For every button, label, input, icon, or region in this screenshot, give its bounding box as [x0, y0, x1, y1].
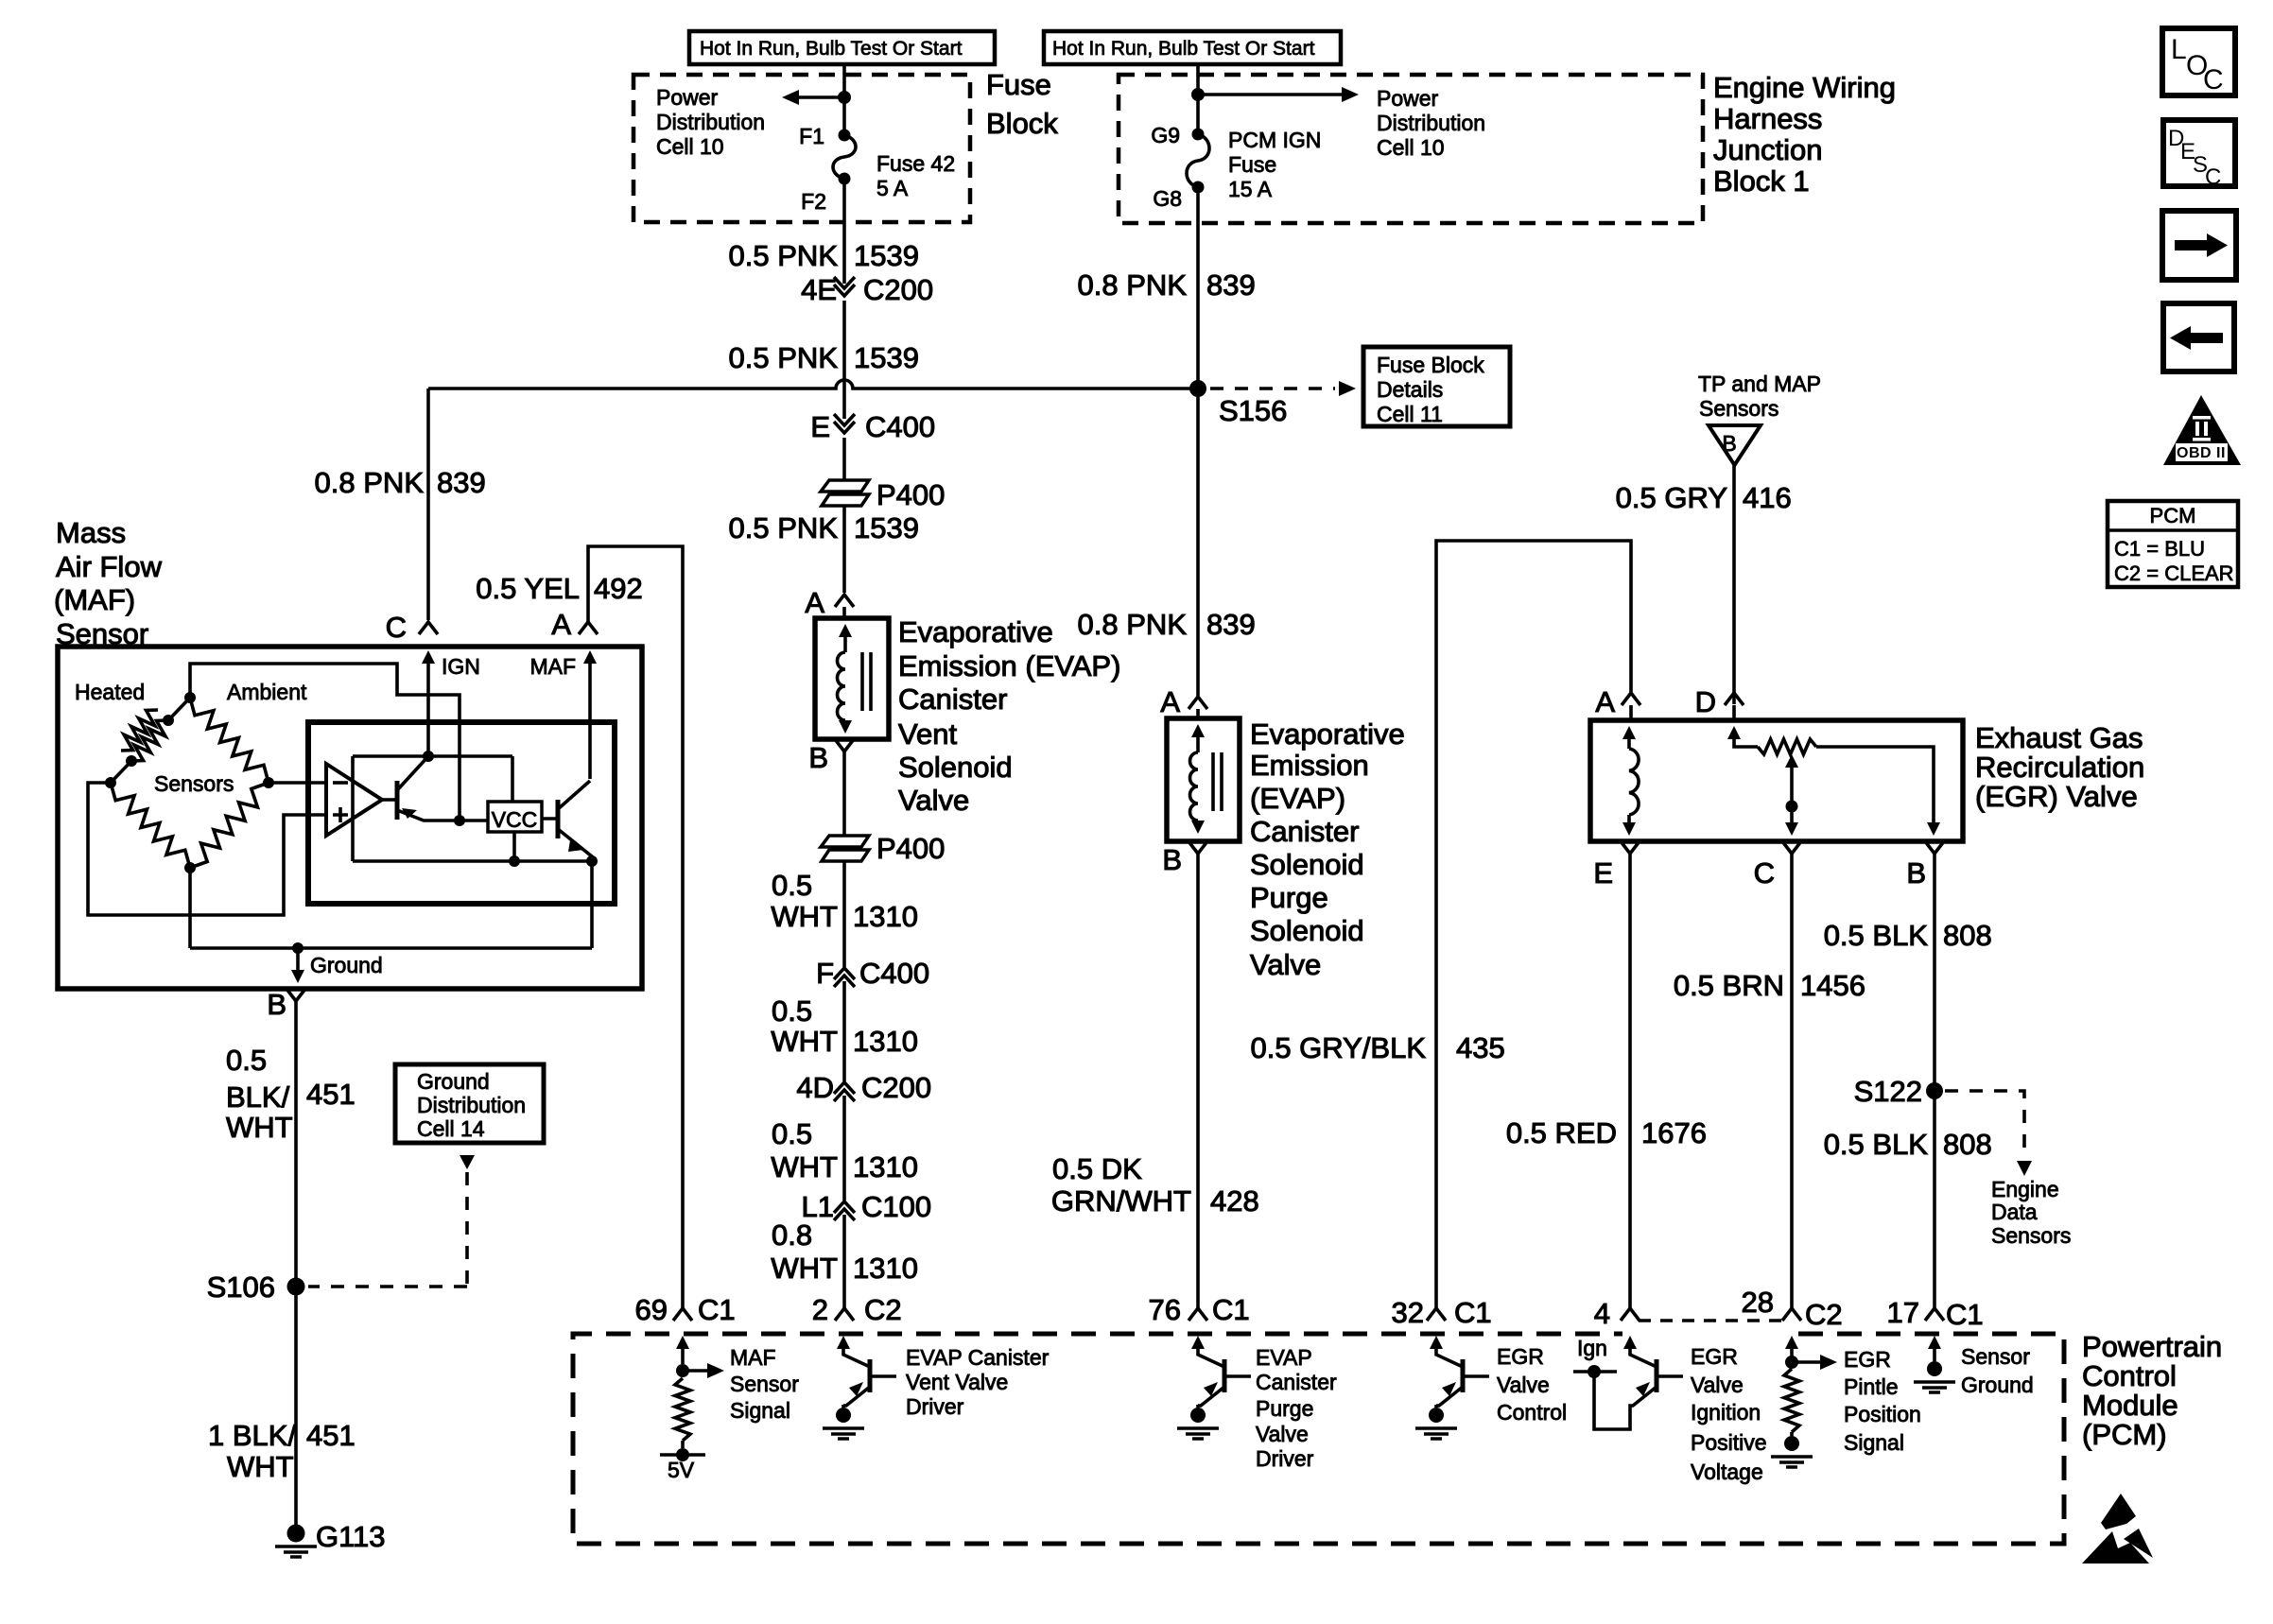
svg-text:0.5 BLK: 0.5 BLK — [1824, 1128, 1929, 1161]
wire 0.5 PNK 1539 horizontal feed with hop over fuse wire — [428, 380, 1198, 389]
wire B to P400 lower — [842, 752, 846, 836]
svg-text:P400: P400 — [876, 478, 945, 511]
svg-text:Vent Valve: Vent Valve — [906, 1370, 1008, 1394]
svg-text:Solenoid: Solenoid — [898, 751, 1013, 784]
svg-text:S156: S156 — [1219, 394, 1287, 427]
EVAP canister purge valve driver transistor (pin 76) — [1177, 1336, 1251, 1439]
connector E C400 — [810, 410, 935, 443]
node junction + arrow to Power Distribution Cell 10 (left) — [782, 90, 851, 105]
svg-text:C100: C100 — [861, 1190, 931, 1223]
svg-text:C400: C400 — [865, 410, 935, 443]
solenoid coil (purge valve) — [1190, 724, 1223, 834]
svg-text:Pintle: Pintle — [1844, 1374, 1899, 1399]
svg-text:Voltage: Voltage — [1691, 1460, 1763, 1484]
wire left node to op-amp + input — [88, 783, 326, 915]
icon LOC — [2162, 28, 2235, 95]
grommet P400 (lower) — [821, 832, 945, 865]
svg-text:B: B — [1722, 431, 1736, 456]
svg-text:0.5: 0.5 — [772, 1117, 812, 1150]
svg-text:451: 451 — [306, 1078, 356, 1111]
svg-text:1 BLK/: 1 BLK/ — [208, 1419, 296, 1452]
svg-text:1310: 1310 — [853, 1025, 918, 1058]
svg-text:0.5 PNK: 0.5 PNK — [729, 341, 839, 374]
wire to P400 — [842, 438, 846, 480]
label EVAP Canister Vent Valve Driver — [906, 1345, 1050, 1419]
wire 0.5 PNK 1539 (P400 to EVAP vent A) — [729, 506, 919, 593]
svg-text:Hot In Run, Bulb Test Or Start: Hot In Run, Bulb Test Or Start — [1052, 38, 1315, 60]
svg-text:EGR: EGR — [1497, 1344, 1544, 1369]
junction block dashed box (PCM IGN fuse) — [1119, 75, 1703, 223]
MAF sensor signal input (pin 69) — [635, 1293, 736, 1326]
svg-text:Air Flow: Air Flow — [56, 550, 163, 583]
wire 0.5 GRY 416 to EGR D — [1616, 465, 1792, 704]
svg-text:EVAP Canister: EVAP Canister — [906, 1345, 1050, 1370]
reference box Fuse Block Details Cell 11 — [1363, 347, 1510, 426]
svg-text:Sensors: Sensors — [1991, 1223, 2071, 1248]
label Engine Wiring Harness Junction Block 1 — [1713, 71, 1896, 198]
reference box Ground Distribution Cell 14 — [395, 1064, 544, 1143]
svg-text:Mass: Mass — [56, 516, 126, 549]
node S122 — [1854, 1075, 1943, 1108]
svg-text:PCM IGN: PCM IGN — [1228, 128, 1321, 152]
label Engine Data Sensors — [1991, 1177, 2071, 1248]
transistor Q2 — [542, 781, 592, 861]
label Power Distribution Cell 10 (left) — [656, 85, 765, 159]
svg-text:Fuse Block: Fuse Block — [1377, 353, 1484, 377]
Ground arrow — [291, 948, 383, 983]
svg-text:1539: 1539 — [854, 239, 919, 272]
svg-text:0.5 GRY: 0.5 GRY — [1616, 481, 1727, 514]
svg-text:0.5 BRN: 0.5 BRN — [1674, 969, 1784, 1002]
svg-text:E: E — [810, 410, 830, 443]
svg-text:Control: Control — [2082, 1359, 2177, 1392]
svg-text:0.5 PNK: 0.5 PNK — [729, 239, 839, 272]
svg-text:(EVAP): (EVAP) — [1250, 782, 1345, 815]
grommet P400 (upper) — [821, 478, 945, 511]
pin B EVAP vent — [808, 739, 854, 774]
svg-text:Module: Module — [2082, 1389, 2178, 1422]
pin 76 C1 at PCM — [1149, 1293, 1250, 1326]
connector 4D C200 — [796, 1071, 931, 1104]
wire fuse1 vertical from Hot box — [842, 64, 846, 135]
svg-text:Distribution: Distribution — [417, 1093, 526, 1117]
pin E EGR — [1593, 841, 1640, 890]
bridge labels — [75, 680, 307, 796]
svg-text:A: A — [551, 608, 571, 641]
svg-text:B: B — [1162, 843, 1182, 876]
wire feedback to ground rail — [590, 861, 594, 948]
svg-text:Canister: Canister — [898, 682, 1007, 716]
label Sensor Ground — [1961, 1344, 2034, 1397]
EGR pintle potentiometer — [1727, 726, 1940, 836]
svg-text:D: D — [1695, 685, 1716, 718]
svg-text:Harness: Harness — [1713, 102, 1822, 135]
label Evaporative Emission (EVAP) Canister Solenoid Purge Solenoid Valve — [1250, 717, 1405, 981]
svg-text:Ambient: Ambient — [227, 680, 307, 704]
svg-text:Evaporative: Evaporative — [898, 615, 1053, 648]
svg-text:IGN: IGN — [442, 654, 480, 679]
wire 0.5 BRN 1456 EGR C to PCM pin 28 — [1674, 854, 1865, 1308]
fuse F1 pin — [799, 124, 850, 148]
rail to VCC top — [511, 756, 514, 802]
legend PCM connectors — [2108, 501, 2238, 587]
label box "Hot In Run, Bulb Test Or Start" (right) — [1044, 31, 1341, 64]
svg-text:1310: 1310 — [853, 1150, 918, 1183]
svg-text:C: C — [1754, 856, 1775, 890]
svg-text:Ground: Ground — [310, 953, 383, 977]
svg-text:C1: C1 — [1946, 1298, 1984, 1331]
wire 0.5 DK GRN/WHT 428 to PCM pin 76 — [1051, 854, 1259, 1308]
wire 0.5 GRY/BLK 435 EGR A to PCM pin 32 — [1250, 541, 1631, 1308]
EGR pintle position signal input (pin 28) — [1771, 1336, 1837, 1467]
svg-text:Emission (EVAP): Emission (EVAP) — [898, 649, 1120, 682]
svg-text:839: 839 — [437, 466, 486, 499]
MAF sensor box — [58, 647, 642, 989]
EGR solenoid coil — [1622, 726, 1639, 836]
svg-text:17: 17 — [1887, 1296, 1919, 1329]
MAF internal arrow — [529, 650, 597, 779]
svg-text:WHT: WHT — [771, 900, 838, 933]
svg-text:0.8 PNK: 0.8 PNK — [1078, 608, 1188, 641]
wire 0.5 BLK 808 S122 to PCM pin 17 — [1824, 1091, 1992, 1308]
svg-text:Ground: Ground — [1961, 1373, 2034, 1397]
svg-text:Distribution: Distribution — [656, 110, 765, 134]
pin B EVAP purge — [1162, 841, 1207, 876]
svg-text:4D: 4D — [796, 1071, 834, 1104]
label EVAP Canister Purge Valve Driver — [1256, 1345, 1337, 1471]
pin A MAF — [551, 608, 598, 641]
svg-text:TP and MAP: TP and MAP — [1698, 371, 1821, 396]
wire 0.5 PNK 1539 (fuse to C200) — [729, 239, 919, 272]
svg-text:451: 451 — [306, 1419, 356, 1452]
feedback left leg — [351, 756, 355, 861]
svg-text:Control: Control — [1497, 1400, 1567, 1425]
svg-text:Vent: Vent — [898, 717, 957, 751]
VCC bottom leg — [512, 832, 516, 861]
svg-text:Engine: Engine — [1991, 1177, 2059, 1201]
svg-text:C: C — [386, 611, 407, 644]
svg-text:Valve: Valve — [898, 784, 969, 817]
icon arrow left — [2163, 303, 2234, 371]
svg-text:4: 4 — [1594, 1297, 1610, 1330]
svg-text:B: B — [267, 988, 286, 1021]
svg-text:Details: Details — [1377, 377, 1443, 402]
svg-text:0.5: 0.5 — [772, 869, 812, 902]
svg-text:Engine Wiring: Engine Wiring — [1713, 71, 1896, 104]
connector L1 C100 — [802, 1190, 932, 1223]
svg-text:(PCM): (PCM) — [2082, 1418, 2167, 1451]
pin B EGR — [1906, 841, 1944, 890]
svg-text:Hot In Run, Bulb Test Or Start: Hot In Run, Bulb Test Or Start — [700, 38, 963, 60]
svg-text:Ground: Ground — [417, 1069, 490, 1094]
svg-text:Cell 14: Cell 14 — [417, 1116, 485, 1141]
label EGR Pintle Position Signal — [1844, 1347, 1921, 1455]
svg-text:69: 69 — [635, 1293, 668, 1326]
svg-text:EVAP: EVAP — [1256, 1345, 1312, 1370]
svg-text:C2: C2 — [864, 1293, 902, 1326]
svg-text:839: 839 — [1206, 268, 1256, 302]
svg-text:808: 808 — [1943, 919, 1992, 952]
svg-text:0.5 GRY/BLK: 0.5 GRY/BLK — [1250, 1031, 1426, 1064]
PCM IGN fuse element — [1187, 134, 1209, 187]
node S156 — [1189, 380, 1287, 427]
svg-text:Driver: Driver — [906, 1394, 964, 1419]
svg-text:Ignition: Ignition — [1691, 1400, 1761, 1425]
svg-text:E: E — [1593, 856, 1613, 890]
wire 0.5 YEL 492 MAF A to PCM pin 69 — [476, 546, 683, 1308]
label Fuse 42 5 A — [876, 151, 955, 200]
svg-text:Heated: Heated — [75, 680, 145, 704]
label box "Hot In Run, Bulb Test Or Start" (left) — [689, 31, 995, 64]
svg-text:435: 435 — [1456, 1031, 1505, 1064]
svg-text:Sensors: Sensors — [1699, 396, 1778, 421]
svg-text:G113: G113 — [316, 1520, 386, 1553]
wire 0.5 PNK 1539 (C200 to C400) — [729, 301, 919, 419]
svg-text:P400: P400 — [876, 832, 945, 865]
label Evaporative Emission (EVAP) Canister Vent Solenoid Valve — [898, 615, 1120, 817]
svg-text:C2 = CLEAR: C2 = CLEAR — [2114, 561, 2234, 585]
svg-text:Purge: Purge — [1256, 1396, 1313, 1421]
svg-text:MAF: MAF — [730, 1345, 776, 1370]
fuse 42 element — [833, 135, 856, 179]
svg-text:Position: Position — [1844, 1402, 1921, 1426]
heated resistor (bridge top-left, doubled) — [111, 698, 190, 783]
svg-text:OBD II: OBD II — [2177, 445, 2226, 461]
svg-text:Sensors: Sensors — [154, 771, 234, 796]
pin D EGR — [1695, 685, 1744, 720]
node junction + arrow to Power Distribution Cell 10 (right) — [1191, 87, 1359, 102]
svg-text:Cell 11: Cell 11 — [1377, 402, 1443, 426]
svg-text:Ign: Ign — [1577, 1336, 1607, 1360]
svg-text:Sensor: Sensor — [730, 1372, 799, 1396]
svg-text:Recirculation: Recirculation — [1975, 751, 2144, 784]
svg-text:Purge: Purge — [1250, 881, 1328, 914]
svg-text:428: 428 — [1210, 1184, 1259, 1218]
svg-text:G9: G9 — [1151, 123, 1180, 147]
svg-text:C400: C400 — [859, 957, 929, 990]
svg-text:Distribution: Distribution — [1377, 111, 1485, 135]
fuse F2 pin — [801, 173, 850, 215]
bridge bottom to ground rail — [188, 868, 192, 948]
fuse block dashed box (Fuse 42) — [633, 75, 970, 222]
svg-text:0.5 PNK: 0.5 PNK — [729, 511, 839, 544]
svg-text:EGR: EGR — [1844, 1347, 1891, 1372]
svg-text:C: C — [2205, 164, 2221, 190]
svg-text:Valve: Valve — [1497, 1373, 1550, 1397]
svg-text:WHT: WHT — [771, 1025, 838, 1058]
svg-text:28: 28 — [1742, 1286, 1774, 1319]
label MAF Sensor Signal — [730, 1345, 799, 1423]
wire below F2 — [842, 179, 846, 282]
wire 0.8 PNK 839 S156 to EVAP purge A — [1078, 389, 1256, 696]
wire 0.5 WHT 1310 (P400 to C400) — [771, 861, 918, 967]
svg-text:Canister: Canister — [1250, 815, 1359, 848]
svg-text:(EGR) Valve: (EGR) Valve — [1975, 780, 2138, 813]
svg-text:Fuse: Fuse — [1228, 152, 1276, 177]
bridge node dots — [105, 692, 274, 873]
svg-text:F2: F2 — [801, 189, 826, 214]
svg-text:0.5 BLK: 0.5 BLK — [1824, 919, 1929, 952]
svg-text:0.5: 0.5 — [772, 994, 812, 1028]
svg-text:A: A — [1595, 685, 1615, 718]
svg-text:1539: 1539 — [854, 511, 919, 544]
svg-text:2: 2 — [812, 1293, 828, 1326]
svg-text:Canister: Canister — [1256, 1370, 1337, 1394]
wire 0.8 WHT 1310 (C100 to PCM pin 2) — [771, 1215, 918, 1308]
svg-text:32: 32 — [1392, 1296, 1424, 1329]
svg-text:S106: S106 — [207, 1270, 275, 1304]
connector 4E C200 — [801, 273, 933, 306]
svg-text:G8: G8 — [1153, 186, 1182, 211]
svg-text:Block 1: Block 1 — [1713, 164, 1810, 198]
svg-text:WHT: WHT — [771, 1252, 838, 1285]
svg-text:Block: Block — [986, 107, 1058, 140]
pin 4 at PCM — [1594, 1297, 1640, 1330]
svg-text:Junction: Junction — [1713, 133, 1822, 166]
wire 0.5 BLK/WHT 451 MAF B to S106 — [226, 1001, 356, 1287]
potentiometer wiper — [1785, 754, 1798, 836]
wire right node to op-amp - input — [269, 781, 326, 785]
svg-text:C1 = BLU: C1 = BLU — [2114, 537, 2205, 561]
wire 1 BLK/WHT 451 S106 to G113 — [208, 1287, 356, 1531]
sensor ground (pin 17) — [1914, 1336, 1955, 1392]
pin 17 C1 at PCM — [1887, 1296, 1984, 1331]
feedback rail — [353, 855, 598, 867]
svg-text:Sensor: Sensor — [1961, 1344, 2030, 1369]
pin B MAF — [267, 988, 305, 1021]
svg-text:0.5 DK: 0.5 DK — [1052, 1152, 1142, 1185]
svg-text:808: 808 — [1943, 1128, 1992, 1161]
svg-text:PCM: PCM — [2150, 504, 2196, 527]
svg-text:15 A: 15 A — [1228, 177, 1273, 201]
svg-text:1676: 1676 — [1641, 1116, 1707, 1149]
pin A EVAP purge — [1160, 685, 1207, 718]
svg-text:Solenoid: Solenoid — [1250, 848, 1364, 881]
wire 0.5 WHT 1310 (C400 to C200) — [771, 981, 918, 1081]
EGR valve control driver transistor (pin 32) — [1415, 1336, 1489, 1439]
fuse G8 pin — [1153, 181, 1204, 212]
svg-text:1310: 1310 — [853, 900, 918, 933]
label EGR Valve Ignition Positive Voltage — [1691, 1344, 1767, 1484]
svg-text:4E: 4E — [801, 273, 837, 306]
label Powertrain Control Module (PCM) — [2082, 1330, 2222, 1451]
svg-text:Signal: Signal — [1844, 1430, 1904, 1455]
svg-text:0.5 YEL: 0.5 YEL — [476, 572, 580, 605]
svg-text:C1: C1 — [698, 1293, 736, 1326]
svg-text:A: A — [1160, 685, 1180, 718]
svg-text:Fuse: Fuse — [986, 68, 1051, 101]
label EGR Valve Control — [1497, 1344, 1567, 1425]
MAF internal amplifier box — [308, 722, 615, 904]
PCM dashed boundary — [573, 1321, 2064, 1544]
ESD sensitivity symbol — [2082, 1494, 2153, 1564]
svg-text:492: 492 — [594, 572, 643, 605]
off-page triangle B (TP and MAP Sensors) — [1698, 371, 1821, 465]
svg-text:5V: 5V — [668, 1458, 695, 1482]
svg-text:839: 839 — [1206, 608, 1256, 641]
svg-text:F: F — [816, 957, 834, 990]
solenoid coil (vent valve) — [838, 624, 872, 734]
svg-text:0.8: 0.8 — [772, 1218, 812, 1252]
svg-text:Power: Power — [1377, 86, 1439, 111]
ambient resistor (bridge top-right) — [190, 698, 269, 783]
svg-text:F1: F1 — [799, 124, 824, 148]
bridge resistor bottom-left — [111, 783, 190, 868]
wire 0.5 BLK 808 EGR B to S122 — [1824, 854, 1992, 1091]
svg-text:1539: 1539 — [854, 341, 919, 374]
pin 2 C2 at PCM — [812, 1293, 902, 1326]
svg-text:76: 76 — [1149, 1293, 1181, 1326]
svg-text:(MAF): (MAF) — [54, 583, 135, 616]
wire 0.5 WHT 1310 (C200 to C100) — [771, 1096, 918, 1201]
EVAP canister vent valve driver transistor (pin 2) — [823, 1336, 896, 1439]
svg-text:Data: Data — [1991, 1200, 2038, 1224]
svg-text:Valve: Valve — [1256, 1422, 1309, 1446]
EVAP canister vent solenoid valve box — [815, 618, 889, 739]
pin C MAF — [386, 611, 438, 644]
svg-text:0.8 PNK: 0.8 PNK — [1078, 268, 1188, 302]
svg-text:C200: C200 — [861, 1071, 931, 1104]
icon arrow right — [2162, 211, 2236, 280]
svg-text:Exhaust Gas: Exhaust Gas — [1975, 721, 2143, 754]
svg-text:1456: 1456 — [1800, 969, 1865, 1002]
IGN internal arrow — [422, 650, 480, 756]
dashed reference from S106 to Ground Distribution — [308, 1155, 475, 1287]
op-amp U1 — [326, 764, 382, 836]
svg-text:5 A: 5 A — [876, 176, 909, 200]
svg-text:Evaporative: Evaporative — [1250, 717, 1405, 751]
svg-text:A: A — [805, 586, 824, 619]
wire 0.8 PNK 839 down to MAF C — [315, 389, 486, 620]
svg-text:C2: C2 — [1805, 1298, 1843, 1331]
fuse G9 pin — [1151, 123, 1204, 147]
bridge top node wire to emitter rail — [190, 664, 460, 821]
pin C EGR — [1754, 841, 1801, 890]
wire fuse2 vertical from Hot box — [1196, 64, 1200, 134]
ground rail inside MAF — [190, 942, 592, 954]
wire 0.5 RED 1676 EGR E to PCM pin 4 — [1506, 854, 1707, 1308]
svg-text:0.8 PNK: 0.8 PNK — [315, 466, 425, 499]
wire 0.8 PNK 839 from G8 to S156 — [1078, 187, 1256, 389]
svg-text:WHT: WHT — [771, 1150, 838, 1183]
svg-text:EGR: EGR — [1691, 1344, 1738, 1369]
connector F C400 — [816, 957, 929, 990]
EVAP canister purge solenoid valve box — [1167, 718, 1240, 841]
EGR valve box — [1590, 720, 1963, 841]
ground G113 — [275, 1520, 386, 1557]
svg-text:VCC: VCC — [492, 807, 538, 832]
svg-text:C: C — [2203, 64, 2224, 95]
svg-text:Driver: Driver — [1256, 1446, 1314, 1471]
pin A EVAP vent — [805, 586, 854, 619]
svg-text:Emission: Emission — [1250, 749, 1369, 782]
icon DESC — [2163, 120, 2235, 190]
svg-text:BLK/: BLK/ — [226, 1080, 290, 1114]
svg-text:Positive: Positive — [1691, 1430, 1767, 1455]
svg-text:1310: 1310 — [853, 1252, 918, 1285]
dashed reference to Fuse Block Details — [1210, 381, 1356, 396]
pin 32 C1 at PCM — [1392, 1296, 1492, 1329]
svg-text:WHT: WHT — [227, 1450, 294, 1483]
label Exhaust Gas Recirculation (EGR) Valve — [1975, 721, 2144, 813]
label PCM IGN Fuse 15 A — [1228, 128, 1321, 201]
transistor Q1 — [382, 756, 488, 821]
svg-text:C1: C1 — [1212, 1293, 1250, 1326]
svg-text:Fuse 42: Fuse 42 — [876, 151, 955, 176]
svg-text:Valve: Valve — [1691, 1373, 1744, 1397]
label Mass Air Flow (MAF) Sensor — [54, 516, 163, 650]
svg-text:Valve: Valve — [1250, 948, 1321, 981]
